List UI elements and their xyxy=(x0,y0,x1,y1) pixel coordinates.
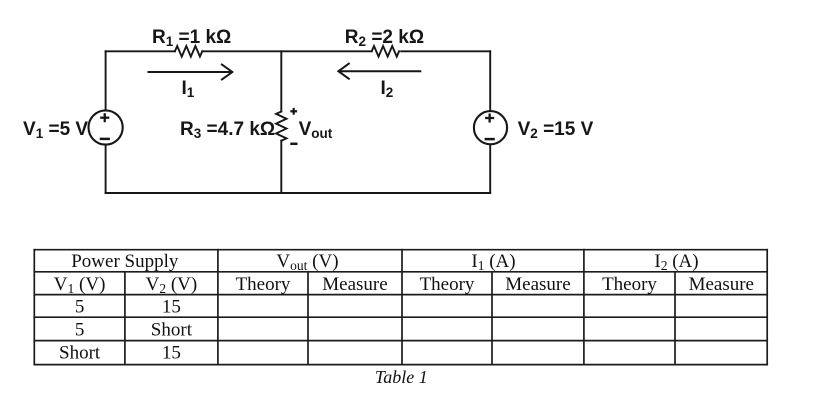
V1 polarity minus xyxy=(100,138,110,141)
svg-text:Short: Short xyxy=(151,319,193,340)
Vout polarity minus xyxy=(290,143,297,146)
wire: right vertical lower xyxy=(489,144,491,193)
svg-text:I2 (A): I2 (A) xyxy=(654,251,698,273)
svg-text:15: 15 xyxy=(162,297,181,318)
svg-text:V1 (V): V1 (V) xyxy=(54,274,106,296)
V1 polarity plus xyxy=(100,113,109,122)
table grid xyxy=(34,250,767,365)
wire: middle vertical lower (R3 to bottom wire) xyxy=(280,141,282,193)
svg-text:Vout: Vout xyxy=(299,119,333,141)
voltage source V1 circle xyxy=(89,110,123,144)
wire: bottom wire xyxy=(106,192,491,194)
wire: right vertical upper xyxy=(489,51,491,111)
svg-text:5: 5 xyxy=(75,297,85,318)
svg-text:15: 15 xyxy=(162,343,181,364)
svg-text:Measure: Measure xyxy=(689,274,754,295)
resistor R3 zigzag (vertical) xyxy=(276,112,286,141)
svg-text:V2 (V): V2 (V) xyxy=(146,274,198,296)
resistor R1 zigzag xyxy=(175,46,202,57)
wire: left vertical upper xyxy=(105,51,107,110)
svg-text:I2: I2 xyxy=(381,78,394,100)
svg-text:5: 5 xyxy=(75,319,85,340)
resistor R2 zigzag xyxy=(372,46,399,57)
svg-text:Measure: Measure xyxy=(322,274,387,295)
svg-text:Theory: Theory xyxy=(602,274,657,295)
svg-text:Table 1: Table 1 xyxy=(375,367,428,387)
svg-text:Theory: Theory xyxy=(236,274,291,295)
wire: left vertical lower xyxy=(105,145,107,193)
V2 polarity plus xyxy=(485,114,494,123)
Vout polarity plus xyxy=(290,108,297,115)
wire: top left segment (V1 top to R1) xyxy=(106,50,175,52)
svg-text:Power Supply: Power Supply xyxy=(71,251,179,272)
V2 polarity minus xyxy=(485,138,495,141)
current arrow I1 (pointing right) xyxy=(149,65,233,80)
current arrow I2 (pointing left) xyxy=(338,64,420,79)
svg-text:I1: I1 xyxy=(182,78,195,100)
svg-text:R3 =4.7 kΩ: R3 =4.7 kΩ xyxy=(180,119,275,141)
svg-text:R1 =1 kΩ: R1 =1 kΩ xyxy=(152,27,231,49)
svg-text:Short: Short xyxy=(59,343,101,364)
svg-text:V2 =15 V: V2 =15 V xyxy=(518,119,594,141)
svg-text:I1 (A): I1 (A) xyxy=(471,251,515,273)
svg-text:Vout (V): Vout (V) xyxy=(276,251,338,273)
wire: top right segment (R2 to V2 top) xyxy=(401,50,490,52)
wire: middle vertical upper (node to R3) xyxy=(280,51,282,111)
svg-text:Measure: Measure xyxy=(505,274,570,295)
svg-text:V1 =5 V: V1 =5 V xyxy=(23,119,88,141)
svg-text:Theory: Theory xyxy=(420,274,475,295)
voltage source V2 circle xyxy=(474,111,507,144)
wire: top middle segment (R1 to R2 through node) xyxy=(202,50,371,52)
svg-text:R2 =2 kΩ: R2 =2 kΩ xyxy=(345,27,424,49)
